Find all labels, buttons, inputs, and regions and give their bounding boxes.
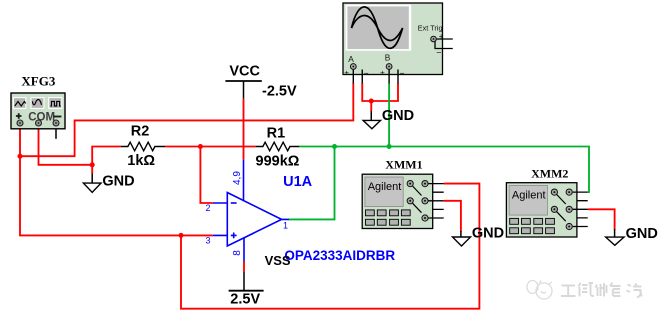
wire: ground junction down to GND symbol xyxy=(91,165,93,174)
svg-text:Agilent: Agilent xyxy=(512,189,546,201)
svg-text:Agilent: Agilent xyxy=(368,181,402,193)
wire: VCC rail down to op-amp top power pin xyxy=(243,98,245,159)
wire: green output net R1 right to XMM2 xyxy=(299,147,589,193)
ground symbol below oscilloscope xyxy=(363,108,414,129)
svg-text:A: A xyxy=(348,54,354,64)
svg-text:+: + xyxy=(380,67,385,77)
junction node: ground net near XFG3 xyxy=(90,162,95,167)
svg-text:B: B xyxy=(385,52,391,62)
svg-text:U1A: U1A xyxy=(283,174,313,190)
multimeter XMM1 xyxy=(362,157,444,228)
power rail 2.5V at op-amp VSS pin xyxy=(229,272,264,308)
oscilloscope XSC xyxy=(343,3,453,83)
svg-text:−: − xyxy=(436,48,441,58)
wire: XFG3 COM to ground junction xyxy=(39,124,93,165)
watermark text xyxy=(561,283,642,298)
svg-text:GND: GND xyxy=(382,108,414,124)
wire: R2 right lead to R1 left lead xyxy=(165,146,256,148)
wire: green feedback drop to op-amp output xyxy=(289,147,335,220)
svg-text:+: + xyxy=(344,67,349,77)
svg-text:2: 2 xyxy=(206,203,211,213)
svg-text:XMM1: XMM1 xyxy=(385,157,422,171)
wire: green up to scope channel B+ xyxy=(388,83,390,147)
wire: op-amp bottom power pin red segment xyxy=(243,262,245,273)
svg-text:R2: R2 xyxy=(131,124,150,140)
junction node: output to scope B green xyxy=(387,144,392,149)
ground symbol below XMM2 xyxy=(606,226,658,245)
svg-text:-2.5V: -2.5V xyxy=(262,83,297,99)
wire: XFG3 + output down left side and to op-amp pin 3 xyxy=(20,124,213,235)
op-amp U1A OPA2333AIDRBR xyxy=(206,160,396,269)
multimeter XMM2 xyxy=(506,167,587,237)
junction node: R2/R1/pin2 xyxy=(198,144,203,149)
wire: junction down to op-amp pin 2 xyxy=(200,147,212,204)
svg-text:XFG3: XFG3 xyxy=(21,74,55,89)
svg-text:GND: GND xyxy=(626,226,658,242)
svg-text:GND: GND xyxy=(472,226,504,242)
svg-text:8: 8 xyxy=(232,250,243,256)
svg-text:3: 3 xyxy=(206,235,211,245)
resistor R2 1kOhm xyxy=(121,124,165,169)
wire: XMM1 terminal 3 to GND xyxy=(444,201,461,232)
power rail VCC -2.5V xyxy=(225,64,297,100)
function generator XFG3 xyxy=(11,74,65,139)
svg-text:XMM2: XMM2 xyxy=(531,167,568,181)
svg-text:−: − xyxy=(364,68,369,78)
svg-text:−: − xyxy=(400,68,405,78)
wire: ground junction up to R2 left lead xyxy=(92,147,121,165)
wire: XMM2 terminal 3 to GND xyxy=(588,209,615,229)
wire: branch to scope channel A+ xyxy=(20,83,353,156)
svg-text:VCC: VCC xyxy=(229,64,260,80)
svg-text:Ext Trig: Ext Trig xyxy=(418,24,443,33)
svg-text:+: + xyxy=(439,32,444,41)
scope trace waveform xyxy=(352,7,403,48)
svg-text:1kΩ: 1kΩ xyxy=(127,153,155,169)
wire: scope A- and B- to scope ground xyxy=(362,83,398,112)
svg-text:1: 1 xyxy=(283,221,288,231)
svg-text:2.5V: 2.5V xyxy=(230,292,260,308)
ground symbol near XFG3 xyxy=(83,173,134,192)
watermark logo xyxy=(527,281,552,300)
junction node: scope ground xyxy=(369,99,374,104)
junction node: input net at XFG3 xyxy=(18,154,23,159)
svg-text:999kΩ: 999kΩ xyxy=(256,154,300,170)
svg-text:OPA2333AIDRBR: OPA2333AIDRBR xyxy=(284,248,395,263)
resistor R1 999kOhm xyxy=(256,125,300,169)
ground symbol below XMM1 xyxy=(453,226,505,246)
junction node: pin3 input xyxy=(179,233,184,238)
svg-text:R1: R1 xyxy=(267,125,286,141)
wire: pin3 junction bottom loop to XMM1 terminal 1 xyxy=(181,184,479,309)
svg-text:4,9: 4,9 xyxy=(232,171,243,185)
junction node: output feedback green xyxy=(332,144,337,149)
svg-text:VSS: VSS xyxy=(265,253,291,268)
svg-text:GND: GND xyxy=(102,173,134,189)
